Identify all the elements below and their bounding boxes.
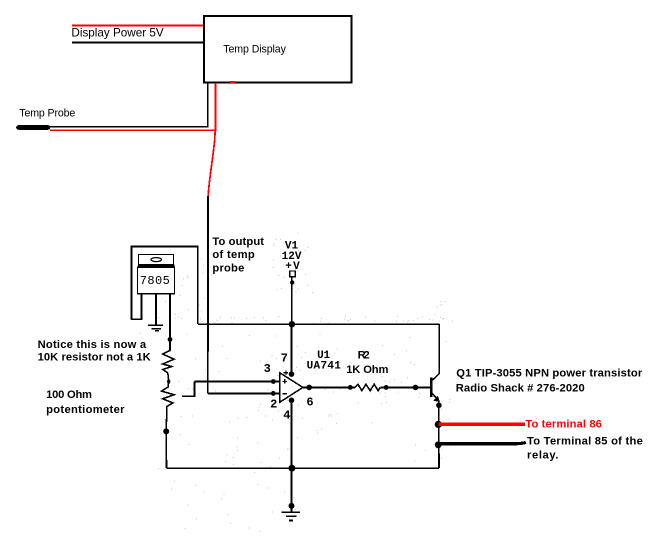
junction dot V1 rail: [289, 321, 295, 327]
svg-text:Temp Probe: Temp Probe: [19, 107, 75, 119]
wire op-amp pin2 input: [208, 392, 280, 394]
transistor Q1 collector stroke: [432, 324, 439, 380]
svg-text:Notice this is now a: Notice this is now a: [38, 339, 147, 351]
wire probe to display black: [48, 83, 208, 127]
svg-text:UA741: UA741: [307, 361, 342, 373]
resistor R 10K zigzag: [163, 350, 174, 381]
red tick on box bottom: [230, 81, 235, 83]
wire 7805 pin1 bottom jog: [131, 294, 141, 320]
regulator 7805 tab hole: [151, 258, 161, 262]
wire op-amp pin3 input: [195, 381, 280, 383]
wire R2 to Q1 base: [380, 386, 430, 388]
resistor R2 zigzag: [355, 384, 380, 390]
junction dot V1: [290, 280, 294, 284]
svg-text:Q1 TIP-3055 NPN power transis: Q1 TIP-3055 NPN power transistor: [456, 368, 643, 380]
svg-text:Temp Display: Temp Display: [223, 44, 286, 56]
junction dot resistor top: [168, 337, 173, 342]
svg-text:R2: R2: [358, 350, 370, 362]
svg-text:4: 4: [283, 409, 290, 423]
junction dot pin7: [289, 371, 295, 377]
wire 7805 top loop: [132, 247, 198, 325]
svg-text:7: 7: [281, 351, 288, 365]
temp probe tip bar: [19, 125, 49, 130]
svg-text:of temp: of temp: [212, 249, 254, 261]
source V1 terminal square: [290, 271, 296, 277]
svg-text:2: 2: [270, 397, 277, 411]
junction dot ground2 top: [289, 503, 295, 509]
wire op-amp output pin6: [303, 386, 355, 388]
wire pin7 from rail: [291, 324, 293, 374]
wire red slant down from probe junction: [208, 130, 215, 197]
regulator 7805 body: [138, 267, 175, 294]
wire V1 down to rail: [291, 277, 293, 325]
wire top rail: [198, 323, 440, 325]
transistor Q1 emitter arrowhead: [433, 396, 440, 402]
svg-text:+V: +V: [285, 261, 300, 273]
ground GND1 under 7805: [148, 325, 163, 330]
wire pot wiper step: [182, 382, 195, 397]
wire probe red: [50, 83, 216, 130]
wire display power 5V red: [72, 25, 204, 27]
transistor Q1 base bar: [430, 378, 433, 398]
svg-text:potentiometer: potentiometer: [46, 404, 125, 416]
transistor Q1 emitter stroke: [432, 394, 438, 401]
junction dot below pot: [163, 428, 169, 434]
op-amp plus input mark: [283, 379, 288, 383]
junction dot pin6: [306, 385, 312, 391]
potentiometer 100 Ohm zigzag: [162, 381, 175, 431]
svg-text:Radio Shack # 276-2020: Radio Shack # 276-2020: [456, 383, 585, 395]
svg-text:3: 3: [264, 362, 271, 376]
wire pin4 down: [291, 400, 293, 511]
op-amp U1 triangle: [280, 373, 303, 403]
op-amp minus input mark: [282, 393, 287, 395]
decorative dither speckle: [140, 233, 453, 532]
svg-text:To output: To output: [212, 236, 264, 248]
junction dot R2 left: [348, 385, 353, 390]
junction dot between resistor and pot: [167, 380, 170, 383]
wire to terminal 85 black thick: [438, 442, 526, 443]
junction dot pin3: [271, 379, 276, 384]
wire black vertical to op-amp pin 2: [207, 196, 209, 393]
svg-text:100 Ohm: 100 Ohm: [46, 389, 92, 401]
svg-text:To Terminal 85 of the: To Terminal 85 of the: [527, 435, 643, 447]
wire 7805 pin3 output down: [169, 294, 171, 351]
wire display power black: [72, 42, 204, 44]
svg-text:1K Ohm: 1K Ohm: [346, 364, 388, 376]
svg-text:relay.: relay.: [527, 450, 559, 462]
wire to terminal 86 red thick: [438, 423, 525, 426]
svg-text:To terminal 86: To terminal 86: [525, 419, 602, 431]
regulator U2 7805 tab: [139, 255, 174, 265]
junction dot pin4: [289, 398, 295, 404]
svg-text:probe: probe: [212, 262, 244, 274]
wire pot bottom to rail: [165, 431, 167, 468]
box Temp Display: [204, 16, 352, 83]
junction dot terminal 85: [435, 441, 442, 448]
svg-text:7805: 7805: [140, 274, 170, 288]
wire 7805 pin2 ground: [155, 294, 157, 325]
svg-text:6: 6: [306, 396, 313, 410]
regulator 7805 thick bar: [138, 265, 175, 268]
wire bottom rail: [166, 467, 439, 469]
wire emitter down: [438, 401, 440, 468]
junction dot base: [413, 385, 419, 391]
svg-text:10K resistor not a 1K: 10K resistor not a 1K: [38, 351, 151, 363]
junction dot emitter: [436, 403, 442, 409]
junction dot R2 right: [384, 385, 389, 390]
junction dot pin4 rail: [289, 465, 296, 472]
junction dot pin2: [271, 391, 276, 396]
svg-text:Display Power 5V: Display Power 5V: [71, 27, 164, 40]
op-amp V+ plus mark: [284, 370, 289, 375]
junction dot terminal 86: [435, 421, 442, 428]
ground GND2: [282, 512, 300, 520]
